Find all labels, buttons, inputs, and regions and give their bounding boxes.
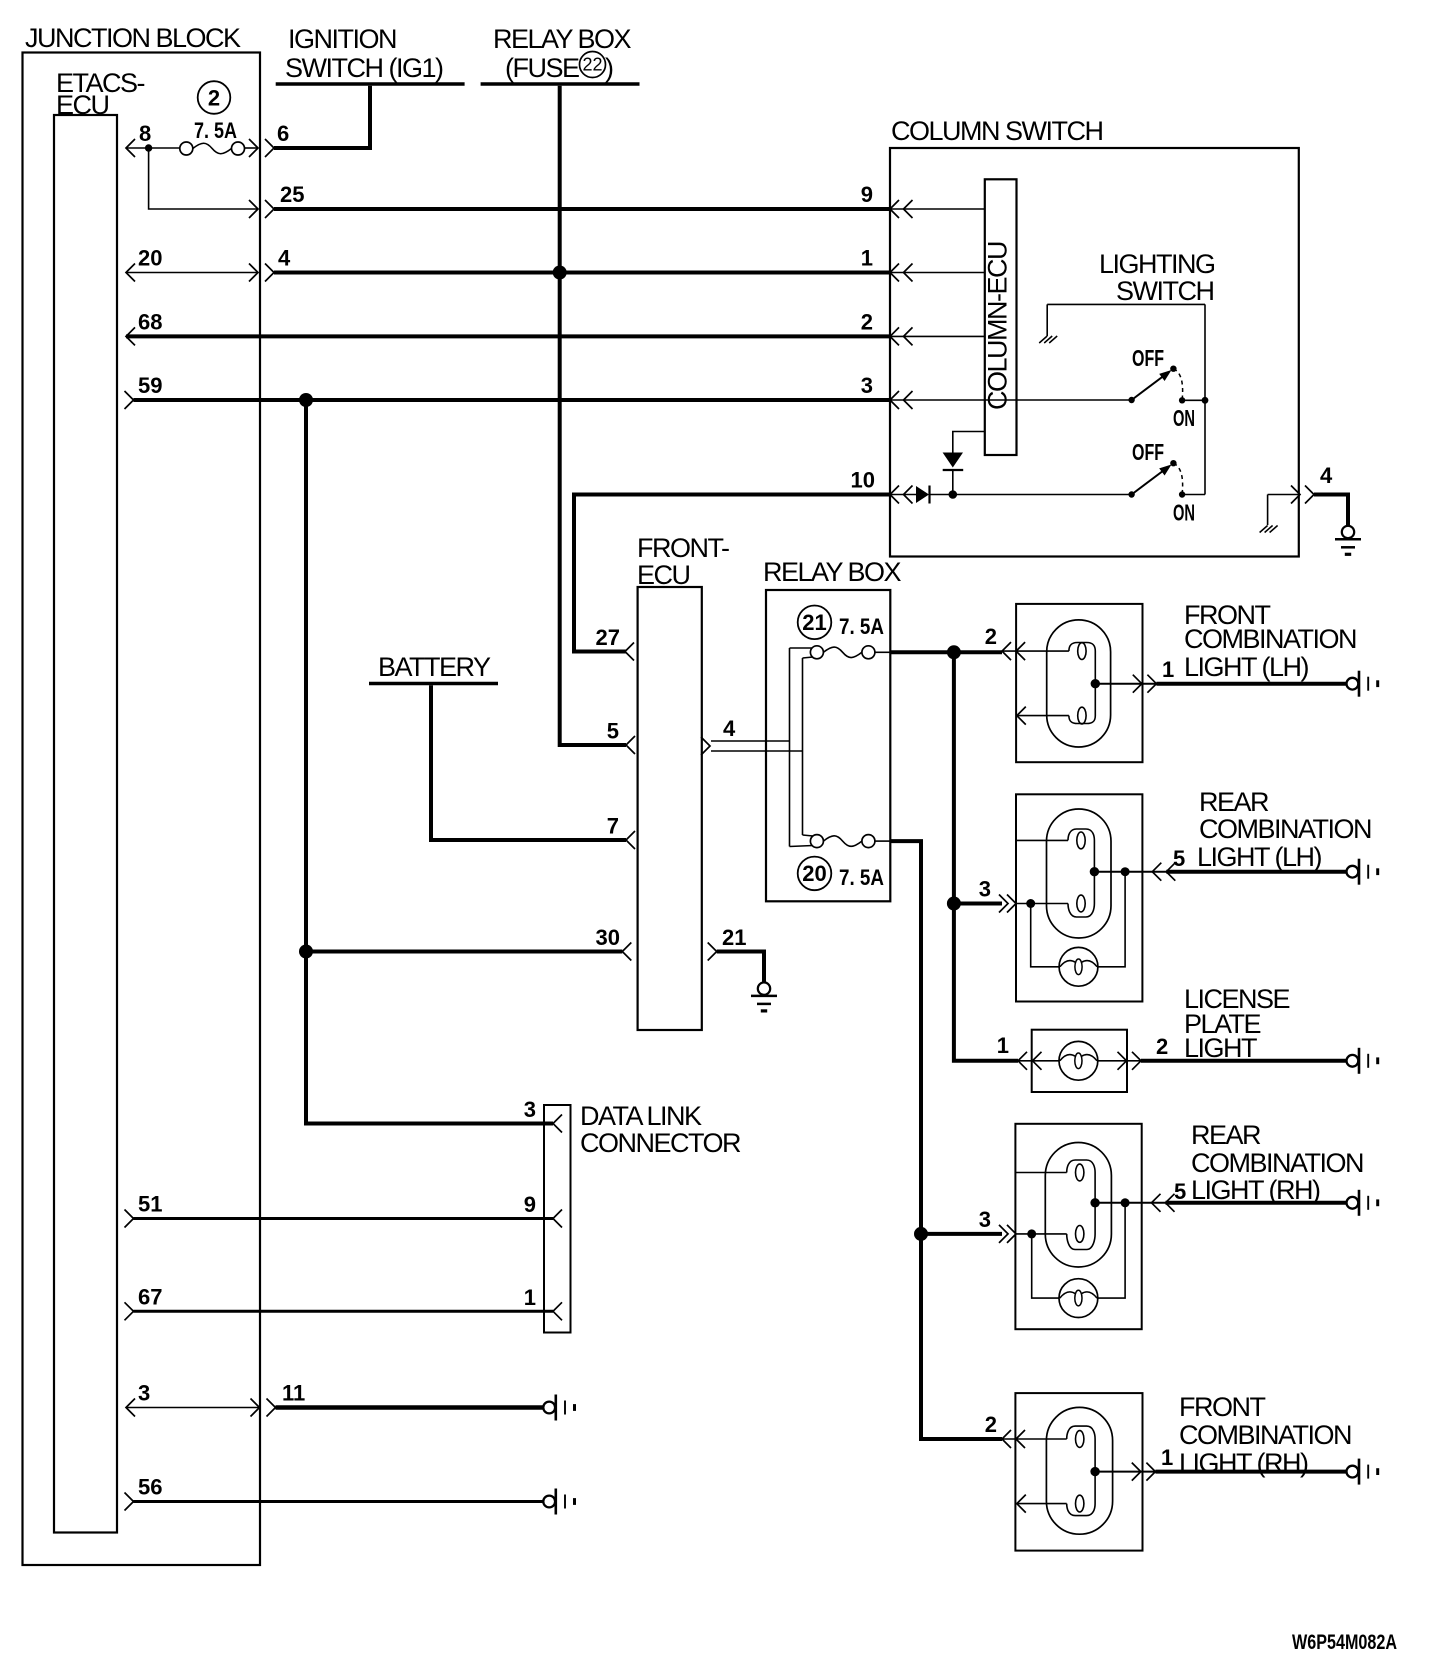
junction block edge connector arrows row1	[249, 139, 258, 157]
wire license pin 1 to bulb	[1018, 1060, 1059, 1062]
wire pin 11 to connector (thick)	[276, 1405, 544, 1410]
rear LH pin 3 arrows	[999, 895, 1008, 913]
wire rear LH pin5 branch to bulb	[1098, 872, 1125, 967]
svg-text:): )	[605, 53, 613, 83]
svg-text:51: 51	[138, 1192, 162, 1217]
wire fuse 20 output down (thick)	[890, 841, 1002, 1439]
pin 68 connector arrow	[126, 327, 135, 345]
wire pin 3 line to lighting switch	[890, 399, 1132, 401]
svg-text:3: 3	[979, 877, 991, 902]
pin 51 connector arrow	[125, 1210, 134, 1228]
wire rear RH pin 5 out	[1095, 1202, 1166, 1204]
junction block edge connector arrows row4	[251, 1399, 260, 1417]
svg-text:W6P54M082A: W6P54M082A	[1292, 1631, 1397, 1654]
pin 8 connector arrow	[126, 139, 135, 157]
svg-text:56: 56	[138, 1475, 162, 1500]
svg-text:1: 1	[861, 246, 873, 271]
upper OFF contact	[1170, 366, 1176, 372]
front RH lower filament stub arrow	[1017, 1495, 1026, 1513]
harness connector (rear LH)	[1347, 866, 1359, 878]
pin 20 connector arrow	[126, 264, 135, 282]
wire front LH pin 1 to connector (thick)	[1156, 682, 1346, 686]
license plate light bulb	[1059, 1041, 1098, 1080]
diode D2 (to column-ecu)	[943, 453, 963, 468]
svg-text:5: 5	[1173, 846, 1185, 871]
node rear LH tail branch	[1026, 899, 1035, 908]
pin 5 connector arrow	[626, 736, 635, 754]
node rear RH tail branch	[1027, 1229, 1036, 1238]
license pin 1 arrows	[1018, 1052, 1027, 1070]
column switch pin 1 arrows	[890, 264, 899, 282]
svg-text:RELAY BOX: RELAY BOX	[763, 557, 902, 587]
pin 21 connector arrow	[708, 943, 717, 961]
wire front RH pin 1 to connector (thick)	[1155, 1470, 1346, 1474]
harness connector (pin 11)	[543, 1402, 555, 1414]
wire pin 3 to junction block edge	[126, 1407, 260, 1409]
svg-text:2: 2	[861, 310, 873, 335]
wire pin 4 to column switch pin 1 (thick)	[274, 271, 890, 275]
relay box outline	[766, 590, 890, 901]
wire pin 25 to column switch pin 9 (thick)	[274, 207, 890, 211]
rear combination light RH lower filament coil	[1076, 1226, 1084, 1243]
rear RH pin 5 arrows	[1152, 1194, 1161, 1212]
wire column pin 10 to front-ecu pin 27 (thick)	[574, 495, 890, 652]
license plate light housing box	[1032, 1030, 1127, 1092]
dlc pin 9 arrow	[553, 1210, 562, 1228]
svg-text:5: 5	[607, 719, 619, 744]
rear LH pin 5 arrows	[1152, 863, 1161, 881]
svg-text:8: 8	[139, 121, 151, 146]
front LH pin 1 arrows	[1133, 675, 1142, 693]
front combination light RH upper filament	[1067, 1426, 1095, 1472]
wire rear LH upper filament to box edge	[1016, 839, 1068, 841]
front combination light RH lower filament	[1067, 1472, 1095, 1516]
lower OFF contact	[1170, 460, 1176, 466]
wire pin 4 stub to chassis ground	[1268, 494, 1299, 496]
wire front LH pin 2 to upper filament	[1002, 650, 1069, 652]
wire rear RH tail branch to bulb	[1032, 1234, 1059, 1298]
wire pin 8 drop to pin 25	[149, 148, 258, 209]
wire battery to front-ecu pin 7 (thick)	[431, 685, 626, 840]
battery bus bar	[369, 682, 498, 685]
column switch pin 9 arrows	[890, 200, 899, 218]
svg-text:68: 68	[138, 310, 162, 335]
pin 7 connector arrow	[626, 831, 635, 849]
chassis ground (column switch pin 4)	[1260, 526, 1268, 533]
front combination light LH lower filament	[1069, 684, 1095, 724]
upper switch travel arc (dashed)	[1173, 369, 1182, 401]
node rear LH pin 5 branch	[1121, 867, 1130, 876]
wire upper ON contact to rail	[1182, 399, 1205, 401]
column switch outline	[890, 148, 1299, 557]
front combination light RH bulb outer envelope	[1046, 1407, 1112, 1534]
front combination light RH filament common node	[1090, 1467, 1099, 1476]
upper ON contact	[1179, 397, 1185, 403]
pin 59 connector arrow	[125, 391, 134, 409]
junction block edge connector arrows row3	[249, 264, 258, 282]
wire license bulb to pin 2	[1098, 1060, 1141, 1062]
wire front LH lower filament stub	[1017, 715, 1069, 717]
relay box feed loop outer	[789, 648, 791, 847]
svg-text:COMBINATION: COMBINATION	[1191, 1148, 1363, 1178]
pin 27 connector arrow	[625, 643, 634, 661]
wire rear LH pin 5 to connector (thick)	[1166, 870, 1346, 874]
wire diode D2 to column-ecu	[953, 432, 985, 453]
front combination light LH lower filament coil	[1078, 707, 1086, 724]
lower ON contact	[1179, 491, 1185, 497]
wire front LH pin 1 out	[1095, 683, 1156, 685]
svg-text:21: 21	[722, 925, 746, 950]
wire to rear combination light RH pin 3 (thick)	[921, 1232, 1002, 1236]
lighting switch upper pole pivot	[1128, 397, 1134, 403]
wire fuse 21 to relay box edge	[875, 651, 890, 653]
wire rear LH pin 5 out	[1094, 871, 1167, 873]
wire branch to front-ecu pin 30 (thick)	[306, 950, 622, 954]
svg-text:SWITCH (IG1): SWITCH (IG1)	[285, 53, 443, 83]
pin 67 connector arrow	[125, 1302, 134, 1320]
front combination light LH upper filament	[1069, 643, 1095, 684]
svg-text:REAR: REAR	[1191, 1120, 1261, 1150]
wire license pin 2 to connector (thick)	[1141, 1059, 1346, 1063]
svg-text:10: 10	[851, 468, 875, 493]
svg-text:1: 1	[1162, 657, 1174, 682]
front combination light LH housing box	[1016, 604, 1142, 762]
ignition switch IG1 bus bar	[276, 82, 465, 85]
svg-text:4: 4	[723, 716, 736, 741]
wire pin 10 to diode	[890, 494, 916, 496]
node rear LH pin 3 junction	[947, 897, 961, 911]
node fuse 21 output junction	[947, 645, 961, 659]
rear LH tail/license bulb	[1059, 947, 1098, 986]
svg-text:OFF: OFF	[1132, 345, 1164, 371]
harness connector (front RH)	[1347, 1466, 1359, 1478]
rear combination light RH bulb outer envelope	[1045, 1143, 1111, 1268]
front RH pin 1 arrows	[1132, 1463, 1141, 1481]
pin 56 connector arrow	[125, 1493, 134, 1511]
node pin8/pin25 junction	[145, 144, 152, 151]
svg-text:LIGHT (RH): LIGHT (RH)	[1179, 1448, 1308, 1478]
svg-text:ECU: ECU	[56, 90, 109, 120]
harness connector (license)	[1347, 1055, 1359, 1067]
svg-text:FRONT: FRONT	[1179, 1392, 1265, 1422]
rear combination light LH upper filament coil	[1077, 832, 1085, 849]
svg-text:JUNCTION BLOCK: JUNCTION BLOCK	[25, 23, 241, 53]
fuse 20 element	[810, 835, 823, 848]
node diode branch junction	[949, 490, 958, 499]
wire pin 4 upper conductor	[711, 740, 790, 742]
front combination light RH housing box	[1015, 1393, 1142, 1551]
front combination light LH upper filament coil	[1078, 643, 1086, 660]
svg-text:1: 1	[997, 1033, 1009, 1058]
rear combination light LH lower filament coil	[1077, 895, 1085, 912]
svg-text:1: 1	[524, 1285, 536, 1310]
svg-text:67: 67	[138, 1285, 162, 1310]
harness connector (pin 56)	[543, 1496, 555, 1508]
front combination light LH filament common node	[1091, 679, 1100, 688]
wire pin 1 stub to column-ecu	[890, 272, 985, 274]
wire lighting switch ground rail	[1047, 303, 1205, 305]
wire pin 68 to column switch pin 2 (thick)	[126, 334, 890, 338]
lighting switch lower pole pivot	[1128, 491, 1134, 497]
node fuse22 feed junction	[553, 266, 567, 280]
front combination light RH upper filament coil	[1076, 1431, 1084, 1448]
wire rear RH pin5 branch to bulb	[1098, 1203, 1125, 1298]
front RH pin 2 arrows	[1002, 1430, 1011, 1448]
fuse 21 circled number	[798, 606, 832, 640]
svg-text:COMBINATION: COMBINATION	[1199, 814, 1371, 844]
svg-text:7. 5A: 7. 5A	[839, 614, 884, 639]
fuse 2 (7.5A) element	[180, 142, 193, 155]
svg-text:IGNITION: IGNITION	[288, 24, 396, 54]
wire pin 4 to earth ground (thick)	[1314, 495, 1348, 527]
svg-text:59: 59	[138, 373, 162, 398]
rear RH pin 3 arrows	[999, 1225, 1008, 1243]
svg-text:COMBINATION: COMBINATION	[1184, 624, 1356, 654]
pin 30 connector arrow	[622, 943, 631, 961]
wire diode to lower pole	[930, 494, 1132, 496]
rear combination light RH housing box	[1015, 1124, 1141, 1329]
wire fuse to junction block edge	[245, 147, 259, 149]
rear RH tail/license bulb	[1059, 1279, 1098, 1318]
svg-text:ON: ON	[1173, 500, 1195, 526]
diode D1 (series, pin 10 line)	[916, 486, 929, 503]
svg-text:LIGHT (LH): LIGHT (LH)	[1184, 652, 1309, 682]
rear combination light LH housing box	[1016, 794, 1142, 1001]
svg-text:3: 3	[979, 1207, 991, 1232]
relay box feed loop inner	[802, 658, 804, 835]
svg-text:COLUMN SWITCH: COLUMN SWITCH	[891, 116, 1103, 146]
wire to license plate light pin 1 (thick)	[954, 652, 1018, 1061]
svg-text:COLUMN-ECU: COLUMN-ECU	[983, 242, 1013, 410]
earth ground (front-ecu pin 21)	[758, 982, 770, 994]
svg-text:OFF: OFF	[1132, 439, 1164, 465]
svg-text:1: 1	[1161, 1445, 1173, 1470]
wire ON contact rail	[1204, 304, 1206, 494]
node pin 59 branch junction	[299, 393, 313, 407]
wire lower ON contact to rail	[1182, 494, 1205, 496]
svg-text:2: 2	[985, 1412, 997, 1437]
junction block edge connector arrows row2	[249, 200, 258, 218]
junction block outline	[23, 53, 261, 1566]
svg-text:27: 27	[596, 625, 620, 650]
svg-text:20: 20	[138, 246, 162, 271]
svg-text:7: 7	[607, 814, 619, 839]
wire pin 9 stub to column-ecu	[890, 208, 985, 210]
front LH lower filament stub arrow	[1017, 707, 1026, 725]
svg-text:(FUSE: (FUSE	[505, 53, 579, 83]
chassis ground (lighting switch)	[1039, 336, 1047, 343]
wire fuse 20 to relay box edge	[875, 840, 890, 842]
svg-text:5: 5	[1174, 1179, 1186, 1204]
lighting switch upper lever	[1132, 375, 1166, 401]
svg-text:COMBINATION: COMBINATION	[1179, 1420, 1351, 1450]
svg-text:CONNECTOR: CONNECTOR	[580, 1128, 741, 1158]
column switch pin 4 arrows	[1291, 486, 1300, 504]
dlc pin 3 arrow	[553, 1115, 562, 1133]
rear combination light LH filament common node	[1090, 867, 1099, 876]
wire rear LH tail branch to bulb	[1031, 904, 1059, 967]
column-ecu box	[985, 179, 1017, 455]
svg-text:20: 20	[802, 861, 826, 886]
node rear RH pin 5 branch	[1121, 1198, 1130, 1207]
license pin 2 arrows	[1118, 1052, 1127, 1070]
svg-text:DATA LINK: DATA LINK	[580, 1101, 702, 1131]
earth ground (column switch)	[1342, 526, 1354, 538]
svg-text:9: 9	[524, 1192, 536, 1217]
svg-text:7. 5A: 7. 5A	[194, 118, 237, 143]
fuse 2 circled number	[198, 81, 231, 114]
rear combination light RH upper filament coil	[1076, 1164, 1084, 1181]
svg-text:BATTERY: BATTERY	[378, 652, 491, 682]
node pin 30 junction	[299, 945, 313, 959]
svg-text:LIGHT (LH): LIGHT (LH)	[1197, 842, 1322, 872]
pin 4 connector arrow (front-ecu right)	[701, 737, 710, 755]
front combination light LH bulb outer envelope	[1047, 620, 1111, 747]
svg-text:21: 21	[802, 610, 826, 635]
front LH pin 2 arrows	[1002, 642, 1011, 660]
svg-text:7. 5A: 7. 5A	[839, 865, 884, 890]
svg-text:6: 6	[277, 121, 289, 146]
fuse 20 circled number	[798, 857, 832, 891]
svg-text:ON: ON	[1173, 405, 1195, 431]
svg-text:2: 2	[985, 624, 997, 649]
rear combination light LH upper filament	[1068, 829, 1094, 872]
wire pin 56 to connector	[134, 1500, 544, 1503]
wire front RH pin 2 to upper filament	[1002, 1438, 1067, 1440]
wire pin 51 to dlc pin 9	[134, 1217, 554, 1220]
node rail junction	[1202, 397, 1209, 404]
svg-text:ECU: ECU	[637, 560, 690, 590]
rear combination light LH lower filament	[1068, 872, 1094, 917]
wire pin 6 to ignition bus (thick)	[274, 86, 370, 148]
svg-text:RELAY BOX: RELAY BOX	[493, 24, 632, 54]
svg-text:3: 3	[861, 373, 873, 398]
wire ground drop	[1046, 304, 1048, 336]
column switch pin 2 arrows	[890, 327, 899, 345]
front combination light RH lower filament coil	[1076, 1495, 1084, 1512]
wire front RH pin 1 out	[1095, 1471, 1155, 1473]
wire pin 20 to junction block edge	[126, 272, 258, 274]
svg-text:4: 4	[1320, 463, 1333, 488]
wire to rear combination light LH pin 3 (thick)	[954, 902, 1002, 906]
ETACS-ECU box	[54, 115, 117, 1533]
rear combination light RH filament common node	[1090, 1198, 1099, 1207]
wire rear RH pin 3 to lower filament	[1016, 1233, 1067, 1235]
svg-text:SWITCH: SWITCH	[1116, 276, 1213, 306]
lower switch travel arc (dashed)	[1173, 463, 1182, 494]
dlc pin 1 arrow	[553, 1302, 562, 1320]
svg-text:LIGHT: LIGHT	[1184, 1033, 1257, 1063]
rear combination light LH bulb outer envelope	[1047, 809, 1112, 938]
wire rear LH pin 3 to lower filament	[1016, 903, 1068, 905]
wire pin 67 to dlc pin 1	[134, 1310, 554, 1313]
wire pin 21 to earth ground (thick)	[717, 952, 764, 983]
wire branch up to diode D2	[952, 470, 954, 495]
svg-text:3: 3	[138, 1381, 150, 1406]
wire rear RH pin 5 to connector (thick)	[1166, 1201, 1347, 1205]
svg-text:LIGHT (RH): LIGHT (RH)	[1191, 1175, 1320, 1205]
wire front RH lower filament stub	[1017, 1503, 1067, 1505]
wire fuse 22 to front-ecu pin 5 (thick)	[560, 86, 626, 745]
svg-text:FRONT-: FRONT-	[637, 533, 729, 563]
svg-text:2: 2	[208, 86, 220, 111]
svg-text:4: 4	[278, 246, 291, 271]
node rear RH pin 3 junction	[914, 1227, 928, 1241]
svg-text:25: 25	[280, 182, 304, 207]
wire pin 8 to fuse	[126, 147, 180, 149]
data link connector box	[544, 1105, 571, 1333]
harness connector (front LH)	[1347, 678, 1359, 690]
fuse 21 element	[810, 646, 823, 659]
svg-text:LIGHTING: LIGHTING	[1099, 249, 1215, 279]
wire fuse 21 output to front light LH (thick)	[890, 650, 1002, 654]
svg-text:30: 30	[596, 925, 620, 950]
wire pin 59 to column switch pin 3 (thick)	[134, 398, 891, 402]
fuse 22 circled number	[580, 52, 606, 78]
wire branch to data link connector (thick vertical)	[306, 400, 553, 1124]
svg-text:REAR: REAR	[1199, 787, 1269, 817]
rear combination light RH lower filament	[1067, 1203, 1095, 1250]
column switch pin 10 arrows	[890, 486, 899, 504]
lighting switch lower lever	[1132, 469, 1166, 495]
rear combination light RH upper filament	[1067, 1160, 1095, 1203]
relay box fuse-22 bus bar	[481, 82, 640, 85]
svg-text:3: 3	[524, 1097, 536, 1122]
wire pin 2 stub to column-ecu	[890, 335, 985, 337]
pin 3 connector arrow	[126, 1399, 135, 1417]
svg-text:22: 22	[582, 55, 602, 75]
wire pin 4 lower conductor	[711, 750, 803, 752]
harness connector (rear RH)	[1347, 1197, 1359, 1209]
svg-text:2: 2	[1156, 1034, 1168, 1059]
front-ecu box	[638, 587, 702, 1030]
svg-text:9: 9	[861, 182, 873, 207]
wire rear RH upper filament to box edge	[1015, 1172, 1066, 1174]
svg-text:11: 11	[282, 1381, 305, 1406]
column switch pin 3 arrows	[890, 391, 899, 409]
